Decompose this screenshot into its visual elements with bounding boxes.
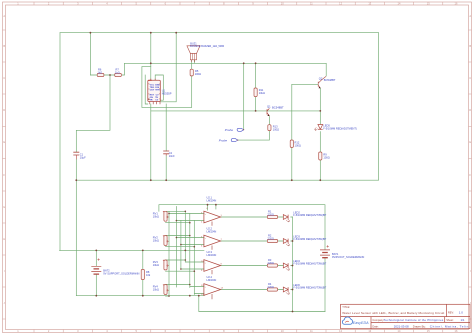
label R3 — [268, 258, 274, 265]
label Q2 — [319, 77, 336, 83]
wire U2.1 V- stub — [215, 205, 217, 209]
wire R6 feed drop — [89, 33, 91, 75]
node rail63 junctions — [150, 62, 152, 64]
pin stubs U1 bottom — [150, 102, 160, 105]
svg-text:2021-03-08: 2021-03-08 — [394, 324, 409, 328]
svg-text:BC548BT: BC548BT — [324, 78, 336, 82]
wire battery+ rail y250 — [60, 249, 205, 251]
svg-text:Water Level Sensor with LED-,: Water Level Sensor with LED-, Buzzer, an… — [342, 311, 444, 315]
svg-text:220Ω: 220Ω — [268, 212, 274, 216]
wire divider bus vertical B — [175, 207, 177, 288]
svg-text:TITLE:: TITLE: — [342, 305, 350, 309]
wire op1 input stubs — [166, 211, 204, 222]
svg-text:1/1: 1/1 — [461, 318, 465, 322]
svg-text:100Ω: 100Ω — [195, 72, 201, 76]
svg-text:E: E — [469, 140, 471, 144]
svg-text:6: 6 — [159, 93, 160, 95]
svg-text:10kΩ: 10kΩ — [153, 215, 159, 219]
resistor R8 — [141, 269, 144, 279]
svg-text:Chinel, Matira, Telin: Chinel, Matira, Telin — [430, 324, 469, 328]
wire U1 pin3 column to GND bus — [150, 104, 152, 180]
wire R11 branch — [255, 63, 257, 111]
svg-text:5: 5 — [159, 98, 160, 100]
svg-text:NE555P: NE555P — [162, 92, 172, 96]
resistor R2 — [267, 239, 277, 242]
label LED2 — [293, 210, 326, 217]
resistor R1 — [267, 215, 277, 218]
label RV2 — [153, 236, 159, 243]
LED LED4 — [283, 263, 290, 271]
pin names U1 — [150, 84, 161, 101]
wire Q2 collector drop — [325, 63, 327, 76]
svg-text:1.0: 1.0 — [459, 310, 463, 314]
svg-text:1kΩ: 1kΩ — [115, 70, 120, 74]
U2.4 pin stub — [211, 294, 213, 299]
svg-text:10kΩ: 10kΩ — [153, 239, 159, 243]
U2.2 pin stub — [211, 246, 213, 250]
LED LED6 — [283, 287, 290, 295]
wire op2 output row — [221, 240, 293, 242]
capacitor C1 — [73, 152, 79, 159]
label R5 — [195, 69, 201, 76]
LED LED3 — [283, 239, 290, 247]
svg-text:1: 1 — [159, 83, 160, 85]
svg-text:E: E — [3, 140, 5, 144]
op-amp U2.1 — [204, 211, 221, 223]
svg-text:9V SUPPORT_SOLDERMANN: 9V SUPPORT_SOLDERMANN — [103, 272, 139, 276]
wire op4 input stubs — [166, 285, 204, 297]
label U2.2 — [207, 227, 217, 234]
svg-text:10kΩ: 10kΩ — [153, 263, 159, 267]
label C1 — [80, 152, 86, 159]
wire U1 right column with C2 — [165, 104, 167, 180]
svg-text:220Ω: 220Ω — [268, 236, 274, 240]
svg-text:10μF: 10μF — [80, 155, 86, 159]
potentiometer RV3 — [163, 260, 169, 270]
pin stubs U1 top — [151, 79, 155, 81]
svg-text:100Ω: 100Ω — [323, 156, 329, 160]
svg-text:220Ω: 220Ω — [268, 285, 274, 289]
svg-text:PASSIVE BUZZER_1kΩ_5MM: PASSIVE BUZZER_1kΩ_5MM — [190, 45, 224, 48]
label R9 — [323, 153, 329, 160]
wire op3 input stubs — [166, 260, 204, 271]
wire op2 input stubs — [166, 236, 204, 247]
svg-text:H: H — [3, 237, 5, 241]
node bus junctions — [185, 211, 187, 213]
resistor R4 — [267, 288, 277, 291]
label R7 — [115, 68, 120, 75]
wire Q2 base line — [292, 84, 318, 180]
transistor Q1 — [267, 108, 270, 116]
label R11 — [259, 88, 265, 95]
resistor R12 — [290, 140, 293, 147]
svg-text:10nF: 10nF — [169, 154, 175, 158]
node LED column junctions — [292, 240, 294, 242]
wire U1 right pin from top rail — [160, 33, 176, 102]
op-amp U1 NE555P body — [148, 79, 161, 105]
resistor R13 — [268, 125, 271, 131]
svg-text:Q1: Q1 — [267, 104, 271, 108]
wire LED cathode column — [292, 217, 294, 312]
svg-text:8: 8 — [148, 83, 149, 85]
wire Q2 emitter LED1 chain — [319, 88, 321, 180]
label RV4 — [153, 285, 159, 292]
wire U1 left bypass inner — [145, 75, 148, 104]
svg-text:10k: 10k — [146, 273, 151, 277]
node top rail junctions — [90, 32, 92, 34]
label BAT2 — [103, 269, 139, 276]
label U1 — [162, 89, 172, 96]
svg-text:Company:: Company: — [372, 318, 384, 322]
label R12 — [295, 141, 301, 148]
label R13 — [273, 125, 279, 132]
EasyEDA logo — [342, 317, 369, 325]
svg-text:D: D — [3, 108, 5, 112]
probe P2 flag — [231, 139, 238, 142]
label Q1 — [267, 104, 284, 109]
svg-text:10kΩ: 10kΩ — [153, 288, 159, 292]
svg-text:G: G — [469, 205, 471, 209]
resistor R11 — [254, 88, 257, 97]
svg-text:10kΩ: 10kΩ — [259, 91, 265, 95]
LED LED1 — [314, 125, 322, 131]
probe P1 flag — [237, 128, 244, 131]
svg-text:2: 2 — [148, 88, 149, 90]
resistor R7 — [115, 73, 122, 76]
label BUZ1 — [190, 42, 224, 48]
wire op3 output row — [221, 265, 293, 267]
svg-text:F-5/10MM RED(HS/T3W)BT: F-5/10MM RED(HS/T3W)BT — [293, 286, 326, 290]
svg-text:H: H — [469, 237, 471, 241]
wire left VCC rail down — [59, 33, 61, 251]
svg-text:4: 4 — [148, 98, 149, 100]
svg-text:Date:: Date: — [372, 324, 378, 328]
potentiometer RV2 — [163, 235, 169, 245]
node opamp rail junctions — [207, 204, 209, 206]
svg-text:100Ω: 100Ω — [273, 128, 279, 132]
wire Q1 emitter chain to probe2 — [238, 117, 270, 141]
wire divider bus vertical F — [193, 221, 195, 295]
wire rail y63 — [125, 62, 327, 64]
label R1 — [268, 210, 274, 217]
svg-text:Probe: Probe — [225, 128, 234, 132]
wire BAT1 bottom to GND row — [324, 258, 326, 312]
wire bottom rail y311 — [199, 296, 325, 312]
label C2 — [169, 151, 175, 158]
svg-text:C: C — [3, 76, 5, 80]
svg-text:Q2: Q2 — [319, 77, 323, 81]
wire probe1 drop — [243, 63, 245, 130]
resistor R5 — [190, 69, 193, 76]
wire 555 output row — [151, 110, 320, 112]
capacitor C2 — [163, 151, 169, 156]
U2.1 pin11 stub — [211, 222, 213, 226]
wire right rail down to GND bus — [378, 33, 380, 181]
resistor R9 — [319, 152, 322, 160]
wire divider bus vertical E — [189, 214, 191, 288]
svg-text:Probe: Probe — [219, 138, 228, 142]
potentiometer RV1 — [163, 211, 169, 221]
wire opamp V+ rail y204 — [159, 205, 325, 250]
svg-text:LM324N: LM324N — [207, 230, 217, 234]
svg-text:1kΩ: 1kΩ — [98, 70, 103, 74]
svg-text:OUT: OUT — [150, 89, 155, 91]
svg-text:F-5/10MM RED(HS/T3W)BT: F-5/10MM RED(HS/T3W)BT — [293, 237, 326, 241]
svg-text:Technological Institute of the: Technological Institute of the Philippin… — [384, 318, 444, 322]
wire divider bus vertical D — [184, 211, 186, 262]
node bat rails junctions — [95, 250, 97, 252]
svg-text:TR: TR — [150, 99, 153, 101]
label R2 — [268, 234, 274, 241]
wire U1 top-right hook — [155, 75, 163, 100]
wire VCC to U1 top — [150, 33, 152, 81]
resistor R6 — [97, 73, 104, 76]
svg-text:LM324N: LM324N — [207, 278, 217, 282]
U2.3 pin stub — [211, 270, 213, 274]
svg-text:EasyEDA: EasyEDA — [353, 321, 369, 325]
wire VCC top rail — [60, 32, 379, 34]
wire node junction 110 down — [76, 75, 110, 296]
wire R6-R7 row — [90, 63, 124, 75]
LED LED2 — [283, 215, 290, 223]
svg-text:7: 7 — [159, 88, 160, 90]
battery BAT1 — [320, 245, 330, 258]
svg-text:F-5/10MM RED(HS/T3W)BT: F-5/10MM RED(HS/T3W)BT — [293, 213, 326, 217]
op-amp U2.4 — [204, 284, 221, 296]
svg-text:B: B — [3, 44, 5, 48]
battery BAT2 — [91, 258, 101, 274]
label R6 — [98, 68, 103, 75]
svg-text:220Ω: 220Ω — [268, 261, 274, 265]
label U2.3 — [207, 250, 217, 257]
node GND bus junctions — [75, 179, 77, 181]
wire buzzer right pin to rail — [194, 60, 196, 64]
node R6R7 junction — [109, 74, 111, 76]
svg-text:LM324N: LM324N — [207, 253, 217, 257]
svg-text:A: A — [469, 14, 471, 18]
label BAT1 — [332, 252, 364, 259]
label LED1 — [323, 124, 357, 131]
svg-text:C: C — [469, 76, 471, 80]
potentiometer RV4 — [163, 284, 169, 294]
wire battery- rail y295 — [76, 295, 204, 297]
svg-text:D: D — [469, 108, 471, 112]
op-amp U2.2 — [204, 235, 221, 247]
label LED4 — [293, 259, 326, 266]
resistor R3 — [267, 264, 277, 267]
label LED6 — [293, 283, 326, 290]
svg-text:REV:: REV: — [448, 310, 454, 314]
svg-text:BC548BT: BC548BT — [272, 106, 284, 110]
buzzer BUZ1 — [187, 46, 200, 62]
transistor Q2 — [318, 76, 326, 88]
wire GND bus y180 — [76, 179, 378, 181]
wire U2.1 V+ stub — [207, 205, 209, 211]
svg-text:Drawn By:: Drawn By: — [413, 324, 426, 328]
wire op4 output row — [221, 289, 293, 291]
label RV3 — [153, 260, 159, 267]
wire divider bus vertical A — [168, 211, 170, 296]
wire buzzer to R5 and to U1 output box — [142, 60, 192, 108]
svg-text:9V/9VOUT_SOLDERMANN: 9V/9VOUT_SOLDERMANN — [332, 255, 364, 259]
svg-text:F-5/10MM RED(ADJTMENT): F-5/10MM RED(ADJTMENT) — [323, 127, 357, 131]
label R4 — [268, 282, 274, 289]
label RV1 — [153, 212, 159, 219]
label LED3 — [293, 234, 326, 241]
op-amp U2.3 — [204, 260, 221, 272]
wire divider bus vertical C — [180, 221, 182, 270]
svg-text:3: 3 — [148, 93, 149, 95]
wire op1 output row — [221, 216, 293, 218]
svg-text:A: A — [3, 14, 5, 18]
svg-text:Sheet:: Sheet: — [446, 318, 454, 322]
svg-text:G: G — [3, 205, 5, 209]
node out555 junctions — [255, 110, 257, 112]
label U2.4 — [207, 275, 217, 282]
svg-text:B: B — [469, 44, 471, 48]
wire BAT2 connections — [95, 250, 97, 295]
svg-text:LM324N: LM324N — [207, 198, 217, 202]
label U2.1 — [207, 195, 217, 202]
label R8 — [146, 270, 151, 277]
wire R8 connections — [142, 250, 144, 295]
svg-text:100Ω: 100Ω — [295, 144, 301, 148]
svg-text:F-5/10MM RED(HS/T3W)BT: F-5/10MM RED(HS/T3W)BT — [293, 262, 326, 266]
